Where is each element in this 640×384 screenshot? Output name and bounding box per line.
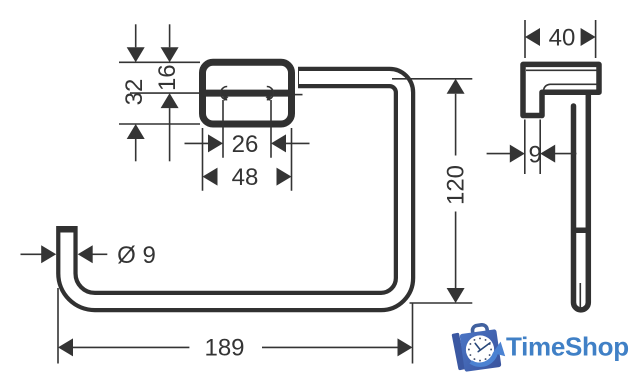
side view arm inner line [543, 84, 598, 91]
svg-text:120: 120 [443, 165, 470, 205]
dim 9 arrows (side) [487, 145, 577, 163]
dim 26 arrows [185, 134, 310, 152]
dim 189 line and arrows [58, 338, 413, 356]
svg-text:TimeShop: TimeShop [506, 332, 629, 362]
wall plate (front view) [203, 62, 292, 124]
mounting bar inside plate [203, 90, 291, 97]
svg-text:16: 16 [154, 64, 181, 91]
logo bag body [460, 329, 502, 372]
logo back strip [452, 333, 466, 371]
dim 32 lower arrow [127, 124, 145, 161]
side view outline [523, 64, 599, 115]
svg-text:26: 26 [232, 131, 259, 158]
dim 26 ext lines [223, 100, 271, 158]
side view hanging tube [574, 95, 589, 310]
dim ext line mid (y93) [130, 92, 199, 94]
logo clock ticks [468, 337, 492, 361]
dim 48 arrows [203, 168, 292, 186]
ring tube (front view) white core [67, 78, 405, 302]
svg-text:9: 9 [529, 141, 542, 168]
dim 9 ext lines (side) [525, 120, 540, 175]
dim 16 lower arrow [161, 93, 179, 161]
logo bag handle [472, 324, 488, 338]
dim 48 ext lines [203, 128, 292, 191]
svg-text:Ø 9: Ø 9 [117, 242, 156, 269]
logo swoosh arrow [470, 342, 506, 367]
dim ext tick right of plate [295, 94, 303, 96]
dim 32 upper arrow [127, 24, 145, 62]
logo clock hands [475, 343, 490, 352]
dim ext line bottom (y124) [119, 123, 200, 125]
right hole arc [266, 87, 274, 102]
logo clock face [466, 335, 494, 363]
dim 189 ext lines [58, 288, 413, 364]
dim 16 upper arrow [161, 24, 179, 62]
dim ext line top (y62) [119, 61, 200, 63]
dim 40 arrows [525, 28, 596, 46]
side view seam line [579, 283, 581, 309]
side view top face line [526, 69, 598, 71]
svg-text:189: 189 [204, 335, 244, 362]
ring tube (front view) black outline [67, 78, 405, 302]
svg-text:48: 48 [232, 164, 259, 191]
dim dia9 arrows [21, 245, 108, 263]
dim 40 ext lines [525, 20, 596, 58]
left hole arc [221, 87, 229, 102]
dim 120 ext lines [392, 79, 472, 303]
svg-text:40: 40 [549, 24, 576, 51]
dim 120 line and arrows [447, 79, 465, 303]
side view crossbar [571, 228, 591, 234]
svg-text:32: 32 [121, 79, 148, 106]
